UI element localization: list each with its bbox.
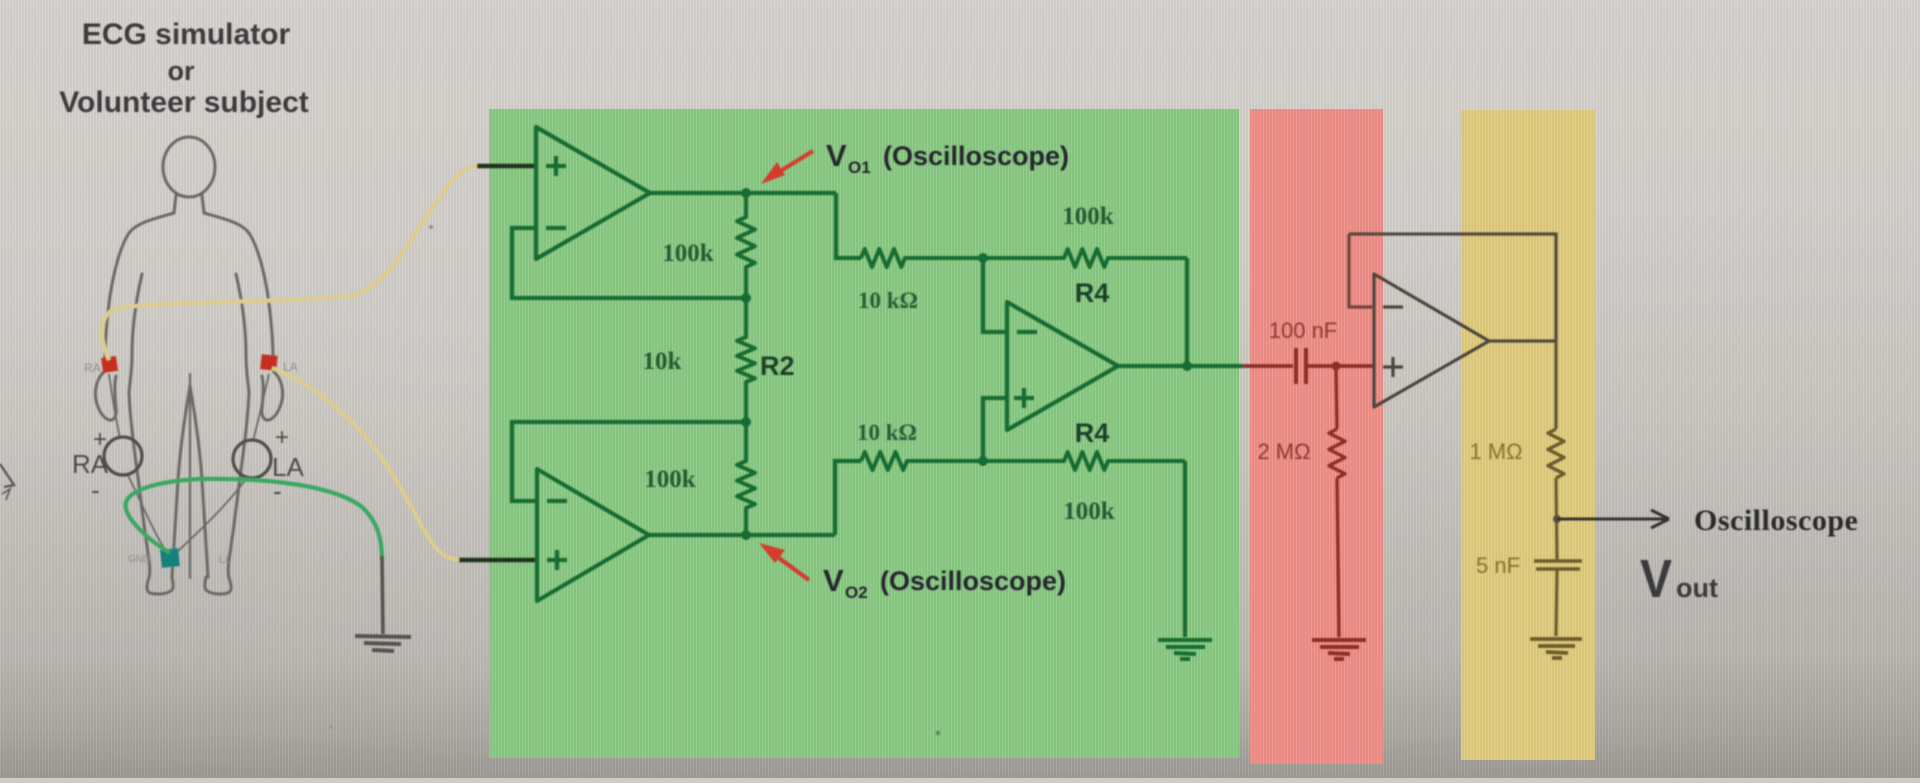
resistor 100k vertical (U1 feedback) <box>737 193 755 298</box>
node Vo2 <box>741 530 751 540</box>
green wire GND electrode to ground <box>126 479 382 560</box>
wire U4 output to feedback junction <box>1489 339 1556 342</box>
wire capacitor to node F <box>1306 364 1374 368</box>
red highlight band (high-pass filter stage) <box>1250 109 1383 764</box>
svg-text:2 MΩ: 2 MΩ <box>1257 439 1310 464</box>
node C <box>978 253 988 263</box>
wire U3 output to node E <box>1118 364 1243 368</box>
paper speck <box>936 731 941 736</box>
ground symbol LPF stage <box>1530 639 1582 658</box>
electrode LA (red square on left wrist) <box>260 354 277 371</box>
svg-text:10k: 10k <box>643 348 682 375</box>
wire R7 down to ground <box>1337 478 1339 637</box>
op-amp U1 <box>536 127 650 259</box>
svg-text:100k: 100k <box>644 466 696 493</box>
svg-text:Oscilloscope: Oscilloscope <box>1694 504 1858 537</box>
connector circle RA <box>104 437 142 475</box>
svg-text:LL: LL <box>219 554 231 566</box>
svg-text:-: - <box>91 475 100 505</box>
wire Vo2 right and up to R6 <box>835 461 861 535</box>
connector circle LA <box>233 440 271 478</box>
label Vout <box>1640 549 1718 609</box>
resistor R4 upper 100k <box>983 249 1187 267</box>
resistor R8 1 MOhm <box>1548 429 1564 478</box>
wire node C down to U3 minus input <box>983 258 1007 332</box>
body outline <box>95 137 282 594</box>
svg-text:R2: R2 <box>760 351 795 381</box>
resistor 100k vertical (U2 feedback) <box>737 422 755 535</box>
svg-text:100k: 100k <box>662 240 714 267</box>
node E <box>1182 361 1192 371</box>
node F <box>1332 362 1341 371</box>
svg-text:V: V <box>826 138 847 173</box>
wire U2 output to node Vo2 <box>649 533 835 537</box>
capacitor C1 100nF <box>1296 348 1306 384</box>
svg-text:GND: GND <box>128 554 150 565</box>
resistor R4 lower 100k <box>983 452 1185 470</box>
arrow wire to oscilloscope <box>1557 510 1669 528</box>
svg-text:V: V <box>1640 549 1672 609</box>
wire Vo1 right and down to R5 <box>836 193 861 258</box>
title text ECG simulator or Volunteer subject <box>59 18 309 119</box>
electrode GND (teal square on left foot) <box>160 548 180 568</box>
stray pen mark at left edge <box>0 464 14 500</box>
wire U1 output to node Vo1 <box>650 191 836 195</box>
svg-text:V: V <box>823 563 844 598</box>
svg-text:ECG simulator: ECG simulator <box>82 18 291 51</box>
node B <box>741 417 751 427</box>
label Vo1 (Oscilloscope) <box>826 138 1069 177</box>
wire U4 feedback top <box>1349 234 1556 341</box>
svg-text:R4: R4 <box>1075 418 1110 448</box>
svg-text:Volunteer subject: Volunteer subject <box>59 86 309 119</box>
wire C2 down to ground <box>1556 569 1557 636</box>
capacitor C2 5nF <box>1534 561 1582 569</box>
node Vo1 <box>741 188 751 198</box>
ground symbol below body <box>355 636 411 651</box>
svg-text:RA: RA <box>84 361 101 375</box>
wire black input stub to U2 + <box>459 558 537 562</box>
wire into coupling capacitor <box>1243 364 1293 368</box>
svg-text:10 kΩ: 10 kΩ <box>858 288 918 313</box>
svg-text:100k: 100k <box>1063 498 1115 525</box>
wire R4 upper down to U3 output node <box>1185 258 1189 366</box>
node G <box>1553 515 1561 523</box>
paper speck <box>329 725 333 729</box>
green highlight band (instrumentation amplifier stage) <box>489 109 1239 758</box>
node A <box>741 293 751 303</box>
yellow wire RA electrode to op-amp U1 input <box>102 166 482 360</box>
ground symbol green stage <box>1158 640 1212 659</box>
svg-text:(Oscilloscope): (Oscilloscope) <box>880 566 1066 596</box>
electrode RA (red square on right wrist) <box>101 356 118 373</box>
red arrow pointing at node Vo2 <box>759 543 809 580</box>
svg-text:100 nF: 100 nF <box>1269 318 1338 343</box>
svg-text:1 MΩ: 1 MΩ <box>1469 439 1522 464</box>
svg-text:+: + <box>275 424 289 451</box>
wire U2 feedback to node B <box>512 422 746 501</box>
svg-text:100k: 100k <box>1062 203 1114 230</box>
wire R4 lower down to ground <box>1183 461 1187 637</box>
svg-text:O2: O2 <box>845 583 868 602</box>
wire output down to R8 <box>1554 341 1557 429</box>
resistor R2 10k vertical <box>737 298 755 422</box>
svg-text:5 nF: 5 nF <box>1476 553 1520 578</box>
lead wires from electrodes to connector circles <box>109 374 269 552</box>
svg-text:or: or <box>168 56 195 86</box>
wire U1 feedback to node A <box>512 228 746 298</box>
ground symbol HPF stage <box>1312 640 1366 659</box>
wire U4 feedback loop <box>1349 234 1374 307</box>
resistor 10 kOhm upper horizontal <box>861 249 983 267</box>
resistor R7 2 MOhm <box>1329 429 1345 478</box>
resistor 10 kOhm lower horizontal <box>861 452 983 470</box>
svg-text:(Oscilloscope): (Oscilloscope) <box>883 141 1069 171</box>
label Vo2 (Oscilloscope) <box>823 563 1066 602</box>
svg-text:out: out <box>1676 573 1718 603</box>
svg-text:R4: R4 <box>1075 278 1110 308</box>
node D <box>978 456 988 466</box>
op-amp U4 <box>1374 274 1489 407</box>
op-amp U2 <box>537 469 649 601</box>
paper speck <box>429 225 433 229</box>
wire black input stub to U1 + <box>477 164 537 168</box>
yellow highlight band (low-pass filter stage) <box>1461 110 1595 760</box>
yellow wire LA electrode to op-amp U2 input <box>272 368 464 560</box>
svg-text:10 kΩ: 10 kΩ <box>857 420 917 445</box>
wire gray drop to ground below body <box>382 556 383 634</box>
wire R8 down to node G <box>1556 478 1557 561</box>
svg-text:O1: O1 <box>848 158 871 177</box>
wire node D up to U3 plus input <box>983 398 1007 461</box>
red arrow pointing at node Vo1 <box>761 151 813 184</box>
wire node F down to R7 <box>1336 366 1337 429</box>
op-amp U3 <box>1007 302 1118 430</box>
